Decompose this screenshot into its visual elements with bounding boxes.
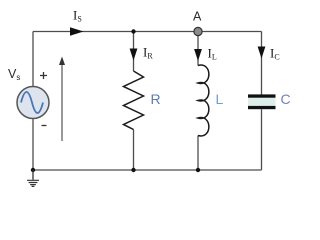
wire right lower (261, 109, 263, 170)
wire left upper (32, 32, 34, 87)
wire right upper (261, 32, 263, 95)
ground bars (27, 180, 39, 186)
svg-text:R: R (151, 91, 161, 107)
junction dot resistor bottom (131, 168, 135, 172)
capacitor C top plate (248, 94, 276, 97)
wire left lower (32, 119, 34, 171)
minus sign (42, 125, 47, 127)
current arrow IR (130, 49, 138, 61)
junction dot source bottom (31, 168, 35, 172)
source VS circle (17, 87, 49, 119)
junction dot inductor bottom (196, 168, 200, 172)
current arrow IC (258, 47, 266, 59)
inductor L (198, 65, 209, 136)
plus sign (40, 72, 47, 79)
current arrow IL (194, 49, 202, 61)
voltage direction arrow (61, 63, 63, 141)
svg-text:IC: IC (270, 46, 280, 62)
capacitor C bottom plate (248, 106, 276, 109)
junction dot resistor top (131, 29, 135, 33)
wire resistor branch bottom (133, 130, 135, 171)
svg-text:IR: IR (143, 45, 153, 61)
current arrow IS (70, 27, 84, 36)
svg-text:A: A (193, 10, 202, 24)
svg-text:IL: IL (208, 46, 217, 62)
svg-text:L: L (216, 91, 224, 107)
wire resistor branch top (133, 32, 135, 72)
source VS sine (21, 92, 43, 113)
svg-text:Vs: Vs (8, 67, 20, 82)
wire bottom (33, 169, 262, 171)
node A dot (194, 27, 202, 35)
svg-text:IS: IS (73, 8, 82, 24)
wire top (33, 31, 262, 33)
wire inductor branch top (197, 32, 199, 66)
resistor R (124, 71, 144, 130)
svg-text:C: C (281, 91, 291, 107)
wire inductor branch bottom (197, 136, 199, 171)
ground stub (32, 170, 34, 180)
capacitor C dielectric fill (248, 97, 276, 107)
